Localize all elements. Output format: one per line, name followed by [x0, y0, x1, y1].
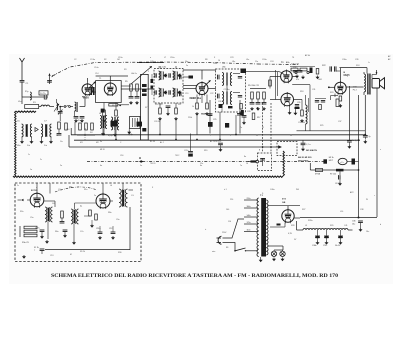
- svg-text:d: d: [380, 224, 381, 226]
- svg-text:R2: R2: [104, 59, 106, 61]
- svg-text:C14: C14: [95, 73, 98, 75]
- svg-text:R17: R17: [257, 117, 260, 119]
- svg-text:TM: TM: [69, 187, 72, 189]
- svg-text:AL 20 MI 220: AL 20 MI 220: [210, 140, 221, 143]
- svg-text:110v: 110v: [247, 229, 251, 231]
- svg-text:W: W: [366, 199, 368, 201]
- svg-text:11: 11: [256, 135, 258, 137]
- svg-text:AP2: AP2: [350, 191, 354, 194]
- svg-text:R10 C18: R10 C18: [155, 104, 162, 106]
- svg-text:C 12Ln: C 12Ln: [224, 89, 230, 91]
- svg-text:C25: C25: [213, 119, 216, 121]
- svg-text:C37: C37: [338, 121, 341, 123]
- svg-text:R23: R23: [330, 92, 333, 94]
- svg-text:T4: T4: [292, 57, 294, 59]
- svg-text:C15: C15: [142, 91, 145, 93]
- svg-text:14: 14: [246, 163, 248, 165]
- svg-text:C39: C39: [355, 59, 358, 61]
- svg-text:TM 2: TM 2: [175, 155, 179, 157]
- svg-text:C41: C41: [344, 225, 347, 227]
- svg-text:220V: 220V: [222, 232, 227, 234]
- svg-text:F1 1k: F1 1k: [34, 247, 39, 249]
- svg-text:MVD PWD: MVD PWD: [298, 161, 309, 163]
- svg-text:6BE6: 6BE6: [83, 98, 89, 100]
- svg-text:C26: C26: [218, 101, 221, 103]
- svg-text:12: 12: [262, 127, 264, 129]
- svg-text:C8 1%: C8 1%: [335, 183, 341, 185]
- svg-text:220v: 220v: [247, 198, 251, 200]
- svg-text:L7a C40: L7a C40: [158, 67, 167, 69]
- svg-text:L4b 2a: L4b 2a: [131, 73, 138, 75]
- svg-text:160v: 160v: [247, 206, 251, 208]
- svg-text:6AQ5: 6AQ5: [344, 74, 351, 77]
- svg-text:o: o: [150, 57, 151, 59]
- svg-text:C34 10k: C34 10k: [298, 122, 305, 124]
- svg-text:U5M: U5M: [213, 63, 217, 65]
- svg-text:AM 20 MI 220: AM 20 MI 220: [298, 156, 312, 159]
- svg-text:R25: R25: [320, 125, 323, 127]
- svg-text:C, 1u: C, 1u: [306, 144, 311, 146]
- svg-text:MI 1k: MI 1k: [329, 157, 334, 159]
- svg-text:R3: R3: [124, 69, 126, 71]
- svg-text:AP 6k: AP 6k: [305, 54, 310, 57]
- svg-text:NO MA/CN: NO MA/CN: [306, 149, 317, 152]
- svg-text:R8: R8: [205, 59, 207, 61]
- svg-text:NI2M C27 D2: NI2M C27 D2: [201, 114, 212, 116]
- svg-text:RT 12k: RT 12k: [330, 174, 336, 176]
- svg-text:9: 9: [230, 135, 231, 137]
- svg-text:R30: R30: [118, 252, 121, 254]
- svg-text:R19: R19: [204, 150, 207, 152]
- svg-text:1M: 1M: [117, 59, 120, 61]
- svg-text:R4: R4: [90, 132, 92, 134]
- svg-text:47k: 47k: [296, 79, 299, 81]
- svg-text:R6 1k: R6 1k: [112, 105, 117, 107]
- svg-text:C38: C38: [360, 209, 363, 211]
- svg-text:1c: 1c: [28, 154, 30, 156]
- svg-text:L9: L9: [305, 225, 307, 227]
- svg-text:R24: R24: [356, 65, 359, 67]
- svg-text:W4: W4: [296, 189, 299, 191]
- svg-text:1-b: 1-b: [60, 141, 63, 143]
- svg-text:140: 140: [226, 209, 229, 211]
- svg-text:C2: C2: [74, 59, 76, 61]
- svg-text:2c: 2c: [17, 185, 19, 187]
- svg-text:C11b: C11b: [96, 228, 100, 230]
- svg-text:C31: C31: [312, 89, 315, 91]
- svg-text:125v: 125v: [247, 222, 251, 224]
- svg-text:7: 7: [210, 135, 211, 137]
- svg-text:R18: R18: [300, 91, 303, 93]
- svg-text:C19: C19: [185, 93, 188, 95]
- svg-text:10: 10: [218, 60, 220, 62]
- svg-text:R11: R11: [178, 104, 181, 106]
- svg-text:1M4: 1M4: [318, 79, 322, 81]
- svg-text:L6: L6: [110, 185, 112, 187]
- svg-text:C36: C36: [352, 221, 355, 223]
- svg-text:M1: M1: [80, 142, 83, 144]
- svg-text:rt 1: rt 1: [224, 188, 227, 191]
- svg-text:rete: rete: [212, 250, 215, 253]
- svg-text:C10: C10: [66, 129, 69, 131]
- svg-text:C35: C35: [297, 102, 300, 104]
- svg-text:10 Th: 10 Th: [40, 93, 46, 95]
- svg-text:16u: 16u: [366, 231, 369, 233]
- svg-text:AL 2: AL 2: [160, 141, 164, 144]
- svg-text:M77A: M77A: [315, 173, 321, 176]
- svg-text:2y: 2y: [369, 136, 371, 138]
- svg-text:1k: 1k: [192, 106, 194, 108]
- svg-text:6BE6 11a: 6BE6 11a: [190, 96, 202, 100]
- svg-text:x: x: [380, 149, 381, 151]
- svg-text:2c: 2c: [40, 159, 42, 161]
- svg-text:140v: 140v: [247, 215, 251, 217]
- svg-text:C22: C22: [210, 93, 213, 95]
- svg-text:C24: C24: [270, 61, 273, 63]
- svg-text:M2: M2: [96, 142, 99, 144]
- svg-text:R16: R16: [243, 117, 246, 119]
- svg-text:BL 40: BL 40: [150, 141, 155, 143]
- svg-text:R29: R29: [330, 225, 333, 227]
- svg-text:13: 13: [290, 135, 292, 137]
- svg-text:C23: C23: [230, 57, 233, 59]
- svg-text:R27: R27: [302, 209, 305, 211]
- svg-text:A5k: A5k: [286, 61, 289, 64]
- svg-text:1u 4y: 1u 4y: [352, 140, 357, 142]
- svg-text:C16: C16: [120, 155, 123, 157]
- svg-text:C12: C12: [109, 228, 112, 230]
- svg-text:C30 0.02: C30 0.02: [291, 64, 300, 66]
- svg-text:2: 2: [148, 71, 149, 73]
- svg-text:50+50: 50+50: [335, 245, 340, 247]
- svg-text:R28: R28: [291, 225, 294, 227]
- svg-text:C28: C28: [247, 111, 250, 113]
- svg-text:C20 5k: C20 5k: [154, 121, 160, 123]
- svg-text:R14 50k C21: R14 50k C21: [248, 85, 259, 87]
- svg-text:C13: C13: [50, 255, 53, 257]
- svg-text:C36b: C36b: [312, 245, 316, 247]
- svg-text:T2: T2: [368, 93, 370, 95]
- svg-text:MI 20: MI 20: [100, 149, 105, 151]
- svg-text:R3a C9: R3a C9: [22, 242, 30, 244]
- svg-text:TM 20: TM 20: [150, 163, 155, 165]
- svg-text:R9 2k: R9 2k: [80, 251, 85, 253]
- svg-text:16u: 16u: [352, 224, 355, 226]
- svg-text:220k: 220k: [188, 117, 192, 119]
- svg-text:L10: L10: [340, 211, 343, 213]
- svg-text:GB: GB: [282, 202, 286, 204]
- svg-text:110: 110: [228, 221, 231, 223]
- svg-text:220: 220: [230, 199, 233, 201]
- svg-text:SCHEMA ELETTRICO DEL RADIO RIC: SCHEMA ELETTRICO DEL RADIO RICEVITORE A …: [51, 273, 338, 279]
- svg-text:C51c: C51c: [323, 245, 327, 247]
- svg-text:C40: C40: [150, 61, 153, 63]
- svg-text:c: c: [374, 195, 375, 197]
- svg-text:L7: L7: [164, 57, 166, 59]
- svg-text:R7: R7: [145, 107, 147, 109]
- svg-text:C4: C4: [52, 203, 54, 205]
